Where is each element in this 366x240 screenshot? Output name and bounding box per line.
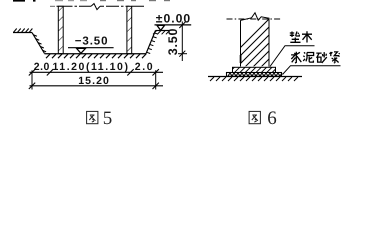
left ground hatch ticks [14,29,33,33]
dimension line row 1 [30,71,164,73]
vertical dimension 3.50 [166,22,187,62]
left slope [32,33,45,54]
break symbol (zigzag) [91,4,100,10]
dimension row 2: 15.20 [29,70,163,89]
right ground line [156,30,171,32]
dimension line row 2 [30,85,164,87]
level mark -3.50 [68,35,114,53]
caption 图 5 [87,108,113,129]
wood pad (垫木) [233,67,276,72]
scan blob on column edge [240,55,242,63]
木 [302,31,312,42]
left ground line [13,32,32,34]
dimension row 1: 2.0 | 11.20(11.10) | 2.0 [29,61,163,75]
dimension ticks 3.50 [179,22,185,57]
垫 [290,32,301,43]
cut-off text remnants top edge [13,0,170,2]
dimension line 3.50 (vertical) [181,22,183,62]
trench bottom line [45,53,147,55]
left slope hatch ticks [33,35,46,52]
svg-text:3.50: 3.50 [166,28,180,56]
center line left dash [50,5,55,7]
svg-text:2.0: 2.0 [34,61,50,73]
trench bottom hatch ticks [46,54,146,58]
right slope [146,31,156,54]
svg-text:15.20: 15.20 [78,75,110,87]
center line (dash-dot) [227,18,283,20]
level mark ±0.00 [155,12,192,31]
extension verticals [32,70,156,89]
leader line to 水泥砂浆 [283,66,341,75]
left column (hatched wall) [58,6,63,53]
leader + label 水泥砂浆 [283,52,341,75]
图 glyph [87,111,98,123]
svg-text:6: 6 [267,108,277,129]
level line -3.50 [68,47,114,49]
ground hatch ticks fig6 [210,77,298,81]
泥 [303,52,313,62]
level triangle ±0.00 [157,25,165,30]
ticks row 2 [29,83,159,89]
center line segment A [57,5,92,7]
svg-text:2.0: 2.0 [135,61,154,73]
column with break at top [196,2,366,92]
svg-text:5: 5 [103,108,113,129]
砂 [316,52,327,63]
caption 图 6 [249,108,277,129]
svg-text:−3.50: −3.50 [75,35,109,47]
level triangle -3.50 [77,48,86,53]
right ground hatch ticks [153,31,169,35]
column edges [241,18,270,67]
leader + label 垫木 [270,31,315,66]
right slope hatch ticks [146,33,158,54]
水 [291,52,301,63]
right column (hatched wall) [127,6,132,53]
ground line fig6 [208,77,302,82]
浆 [329,52,339,63]
column hatch [196,2,366,92]
bottom extension line [178,53,187,55]
svg-text:11.20(11.10): 11.20(11.10) [53,61,130,73]
column break (zigzag top) [241,13,270,21]
level line ±0.00 [155,24,192,26]
leader line to 垫木 [270,46,315,67]
ticks [29,69,159,75]
center line segment B [100,5,144,7]
svg-text:±0.00: ±0.00 [156,12,191,26]
mortar layer (水泥砂浆) [227,73,283,77]
